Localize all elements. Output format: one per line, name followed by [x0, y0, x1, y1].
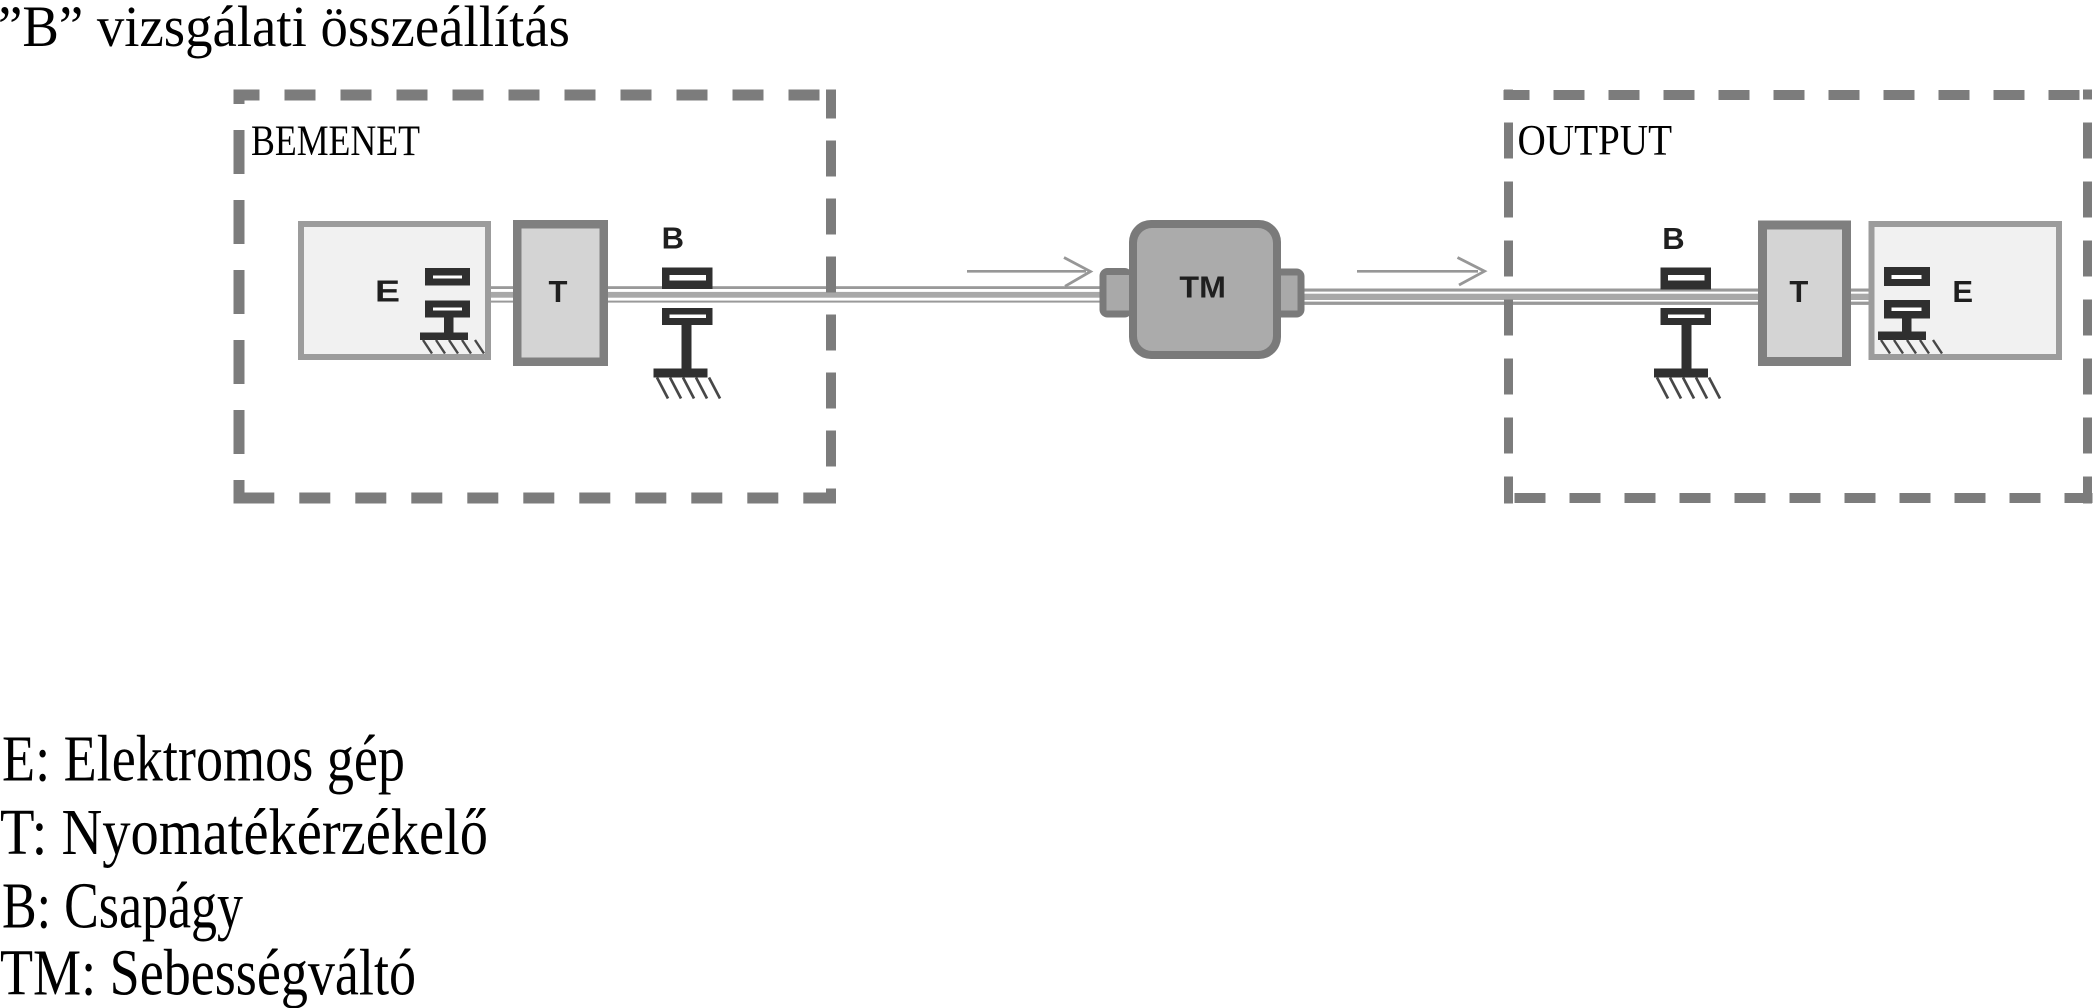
transmission TM left tab — [1100, 268, 1133, 318]
bearing inside output E — [1878, 267, 1930, 340]
dashed box OUTPUT (output section) — [1504, 90, 2093, 504]
arrow out of TM — [1357, 258, 1485, 286]
ground hatch inside output E — [1881, 340, 1942, 354]
dashed box BEMENET (input section) — [234, 90, 837, 504]
svg-text:B: Csapágy: B: Csapágy — [2, 870, 243, 943]
svg-text:BEMENET: BEMENET — [251, 118, 420, 165]
transmission TM right tab — [1272, 269, 1305, 318]
bearing B (output) — [1654, 268, 1711, 378]
svg-text:TM: Sebességváltó: TM: Sebességváltó — [0, 937, 416, 1008]
arrow into TM — [967, 258, 1091, 287]
wire: output shaft TM to T — [1300, 289, 1762, 305]
svg-text:B: B — [1662, 221, 1684, 256]
bearing B (input) — [654, 268, 713, 378]
ground hatch inside input E — [423, 340, 484, 354]
torque sensor T (input) — [513, 220, 608, 366]
svg-text:T: T — [549, 274, 568, 309]
transmission TM body — [1129, 220, 1281, 359]
ground hatch under output bearing — [1657, 378, 1720, 399]
electric machine E (input) — [298, 221, 491, 360]
electric machine E (output) — [1869, 221, 2063, 360]
wire: output shaft T to E — [1849, 289, 1872, 305]
svg-text:E: E — [1952, 274, 1973, 309]
ground hatch under input bearing — [657, 378, 720, 399]
svg-text:”B” vizsgálati összeállítás: ”B” vizsgálati összeállítás — [0, 0, 570, 59]
bearing inside input E — [420, 268, 470, 340]
torque sensor T (output) — [1758, 221, 1851, 367]
svg-text:OUTPUT: OUTPUT — [1518, 118, 1673, 165]
svg-text:E: Elektromos gép: E: Elektromos gép — [2, 723, 405, 796]
svg-text:T: Nyomatékérzékelő: T: Nyomatékérzékelő — [0, 796, 488, 869]
svg-text:E: E — [375, 273, 400, 308]
wire: input shaft E to T — [489, 286, 515, 302]
svg-text:T: T — [1789, 274, 1808, 309]
svg-text:B: B — [662, 221, 684, 256]
svg-text:TM: TM — [1179, 270, 1226, 305]
wire: input shaft T to TM — [606, 286, 1103, 302]
